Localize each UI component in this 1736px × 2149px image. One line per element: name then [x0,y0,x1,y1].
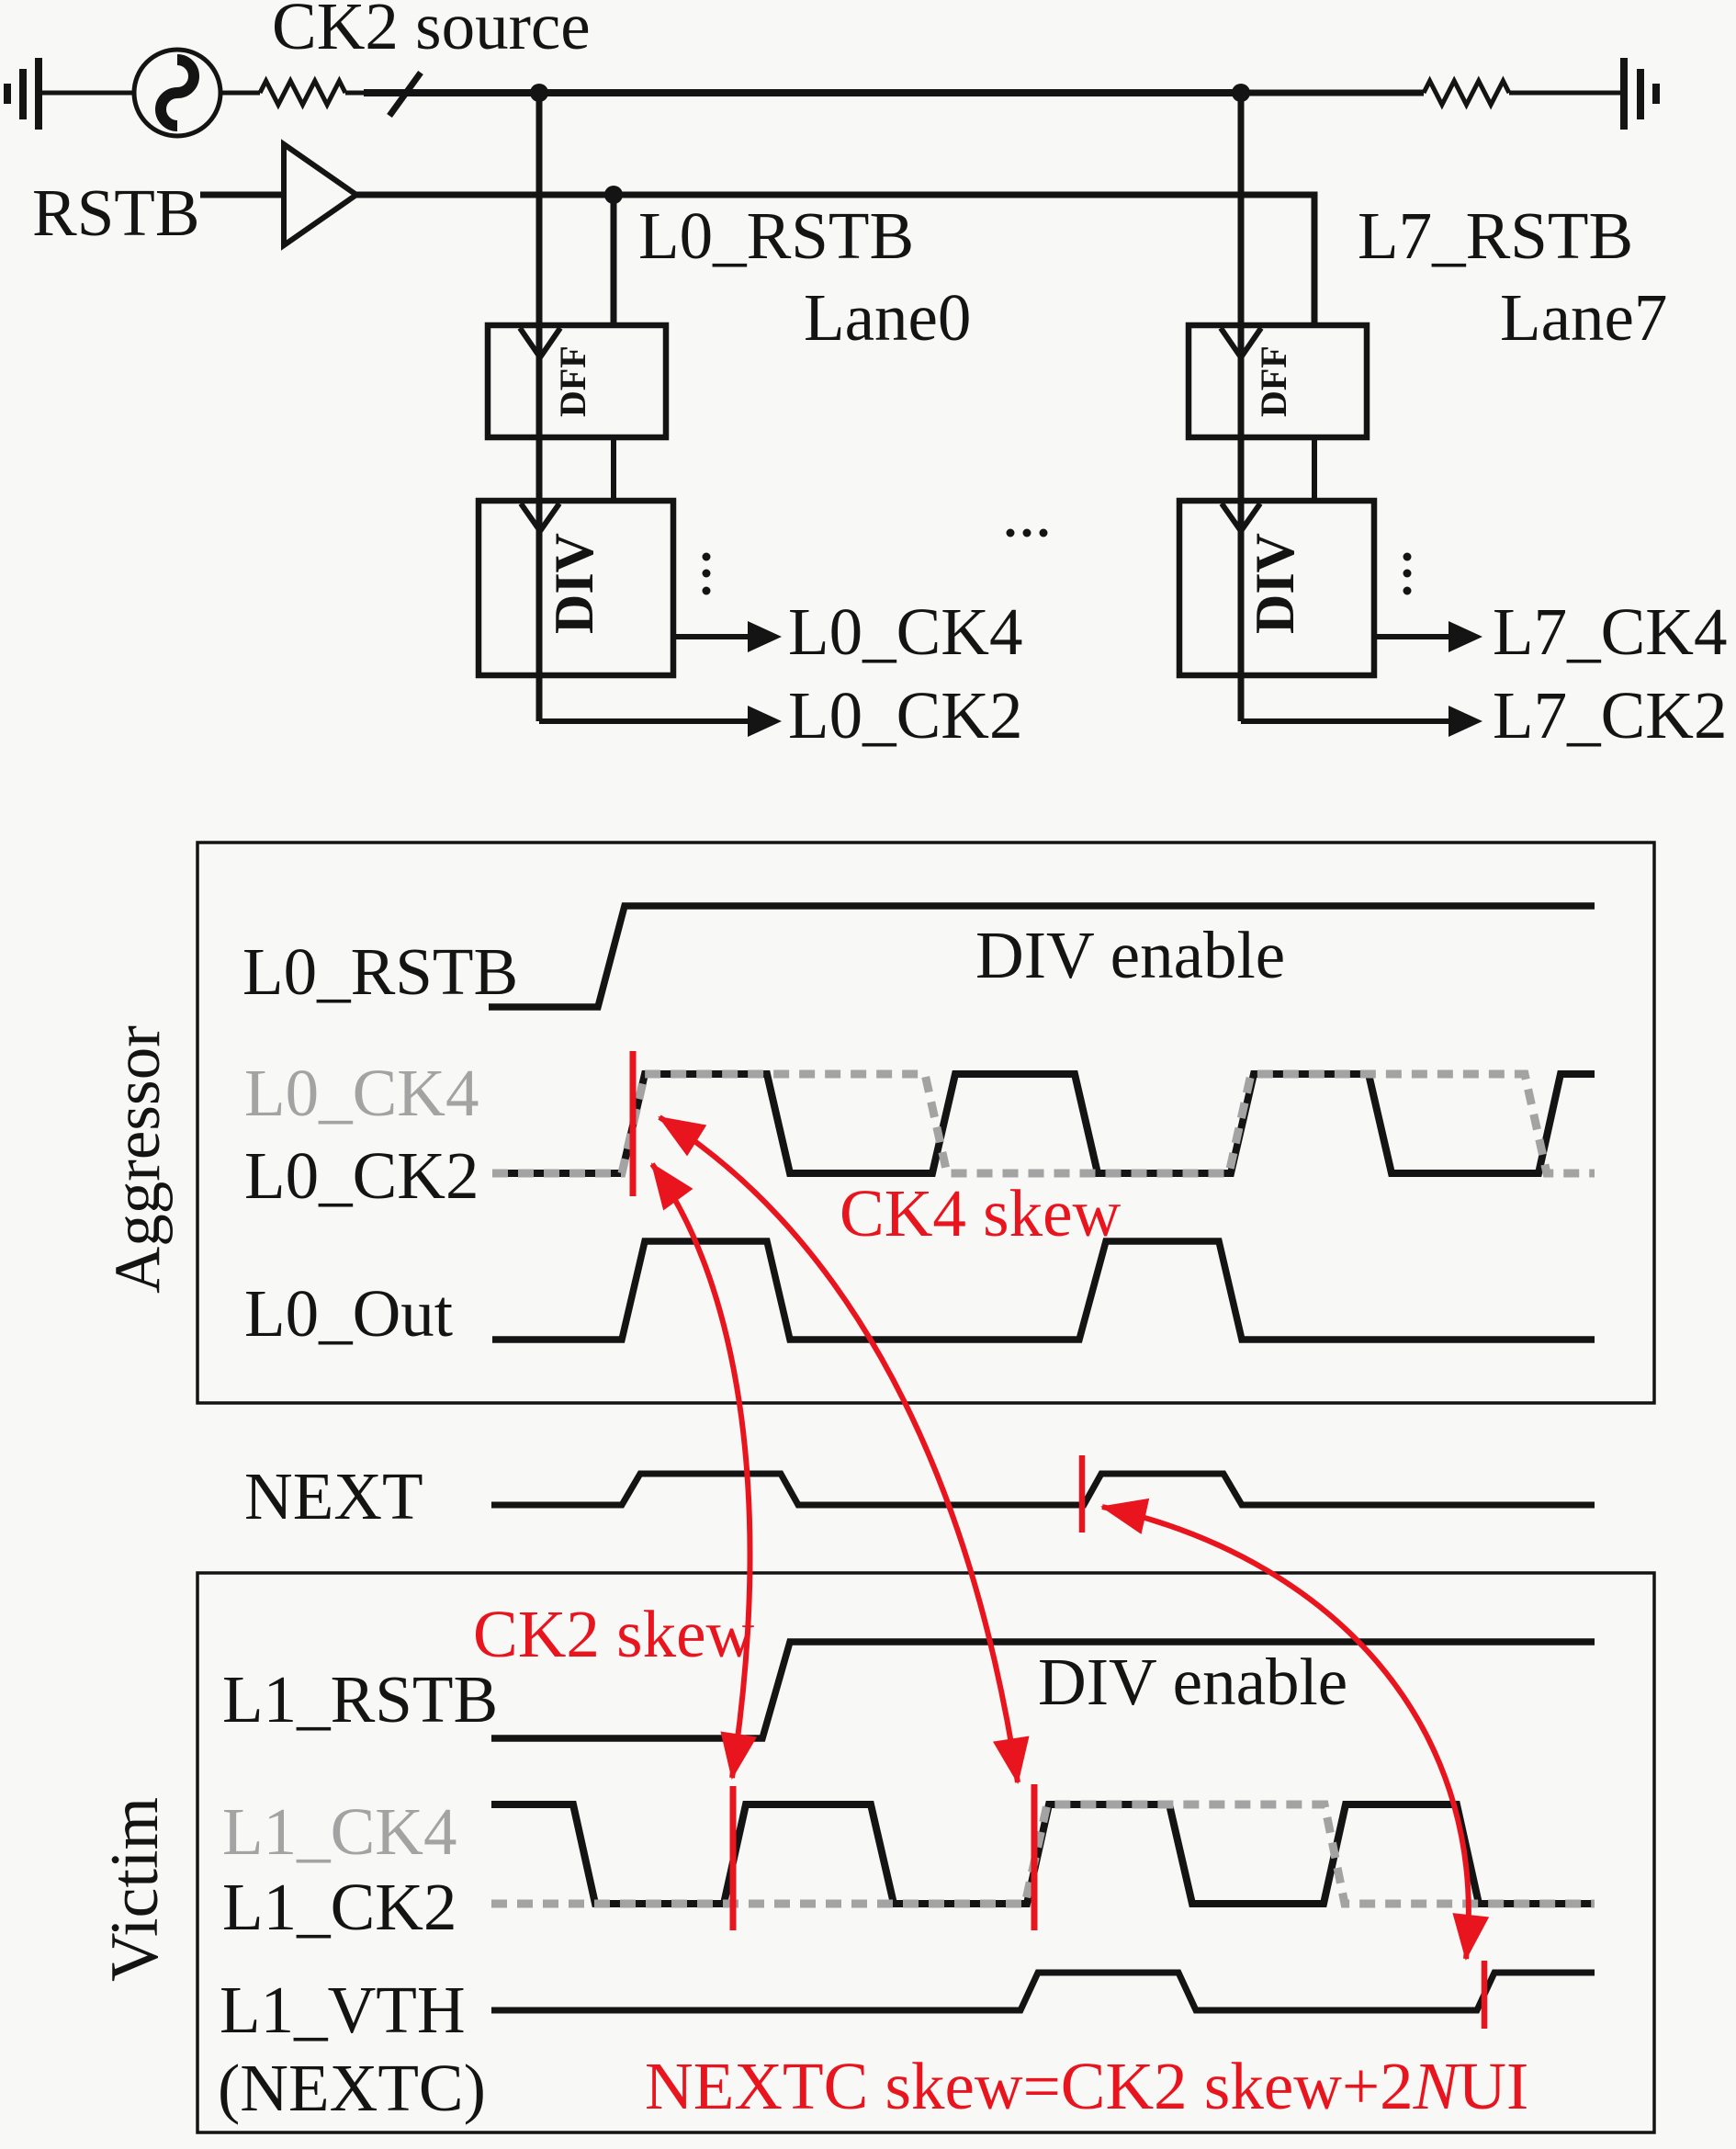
svg-text:L0_RSTB: L0_RSTB [242,934,518,1009]
red arrow CK2 skew [652,1164,750,1778]
buffer U1 [284,144,356,245]
svg-text:CK4 skew: CK4 skew [840,1176,1121,1250]
wire DFF7 to DIV7 [1312,437,1317,501]
clock pin arrow DIV7 [1222,503,1260,531]
wire L0_CK2 out [539,718,750,724]
svg-text:L0_Out: L0_Out [244,1276,453,1351]
node junction dot L7 [1232,84,1250,102]
waveform L0_RSTB [489,906,1595,1007]
waveform L0_Out [492,1241,1595,1340]
DIV U3 Lane0 [479,501,673,675]
svg-text:CK2 source: CK2 source [272,0,591,63]
svg-text:L0_CK4: L0_CK4 [244,1056,479,1130]
red tick L1 CK4 edge [1031,1784,1038,1930]
dots ellipsis DIV0 outputs [703,553,711,561]
wire CK2 vertical Lane7 [1238,93,1245,721]
svg-text:L0_CK4: L0_CK4 [788,594,1023,669]
svg-text:L7_CK2: L7_CK2 [1493,678,1728,752]
wire R1 to bus [345,91,367,96]
waveform L0_CK4 gray dashed [492,1074,1595,1173]
wire L0_RSTB vertical [611,195,617,325]
svg-text:L7_CK4: L7_CK4 [1493,594,1728,669]
svg-text:NEXTC skew=CK2 skew+2NUI: NEXTC skew=CK2 skew+2NUI [645,2049,1528,2123]
wire ground to source [42,91,134,96]
bus slash mark [389,73,421,116]
waveform L1_VTH [491,1973,1595,2010]
wire CK2 vertical Lane0 [536,93,543,721]
ground left [7,58,39,130]
wire source to R1 [220,91,260,96]
DIV U5 Lane7 [1179,501,1374,675]
wire L0_CK4 out [673,634,750,639]
DFF U4 Lane7 [1189,325,1367,437]
svg-text:L1_VTH: L1_VTH [220,1973,466,2047]
svg-text:(NEXTC): (NEXTC) [218,2051,486,2125]
svg-text:DIV enable: DIV enable [1038,1645,1347,1719]
CK2 bus wire [364,89,1241,96]
clock pin arrow DIV0 [521,503,559,531]
red tick L1 CK2 edge [730,1786,737,1930]
DFF U2 Lane0 [488,325,666,437]
svg-text:L0_CK2: L0_CK2 [244,1138,479,1213]
svg-text:DFF: DFF [1253,345,1294,417]
wire R2 to ground [1509,91,1620,96]
node junction dot L0 [530,84,548,102]
waveform L1_RSTB [491,1642,1595,1738]
node junction dot RSTB L0 [604,186,623,204]
AC source V1 (CK2 source) [134,50,220,136]
waveform NEXT [491,1474,1595,1505]
waveform L1_CK4 gray dashed [491,1804,1595,1904]
svg-text:DFF: DFF [552,345,593,417]
resistor R1 [260,81,345,105]
svg-text:L1_CK2: L1_CK2 [222,1870,457,1944]
wire RSTB input [200,192,284,198]
svg-text:RSTB: RSTB [32,175,200,250]
svg-text:Lane7: Lane7 [1500,280,1667,355]
wire L7_CK2 out [1241,718,1450,724]
wire DFF0 to DIV0 [611,437,616,501]
wire RSTB net [356,195,1314,325]
clock pin arrow DFF0 [520,328,560,357]
resistor R2 [1424,81,1509,105]
svg-text:DIV: DIV [544,533,604,634]
svg-text:Aggressor: Aggressor [102,1025,174,1294]
red arrow NEXTC skew [1102,1507,1469,1959]
red tick NEXT edge [1079,1455,1086,1533]
wire L7_CK4 out [1374,634,1450,639]
svg-text:Victim: Victim [97,1797,173,1982]
waveform L0_CK2 [492,1074,1595,1173]
dots ellipsis between lanes [1007,529,1015,537]
red tick L1_VTH edge [1482,1961,1488,2029]
waveform L1_CK2 [491,1804,1595,1904]
svg-text:L1_RSTB: L1_RSTB [222,1662,498,1736]
svg-text:DIV enable: DIV enable [975,918,1285,992]
svg-text:L0_CK2: L0_CK2 [788,678,1023,752]
svg-text:NEXT: NEXT [244,1459,423,1533]
bus to R2 [1241,90,1424,96]
dots ellipsis DIV7 outputs [1403,553,1412,561]
svg-text:DIV: DIV [1245,533,1305,634]
svg-text:L7_RSTB: L7_RSTB [1358,198,1633,273]
Victim box frame [197,1573,1654,2132]
svg-text:CK2 skew: CK2 skew [473,1597,754,1671]
red arrow CK4 skew [659,1117,1018,1782]
Aggressor box frame [197,843,1654,1403]
red tick CK4/CK2 edge [630,1051,637,1196]
svg-text:Lane0: Lane0 [804,280,971,355]
ground right [1624,58,1656,130]
svg-text:L0_RSTB: L0_RSTB [638,198,914,273]
svg-text:L1_CK4: L1_CK4 [222,1794,457,1869]
clock pin arrow DFF7 [1221,328,1261,357]
